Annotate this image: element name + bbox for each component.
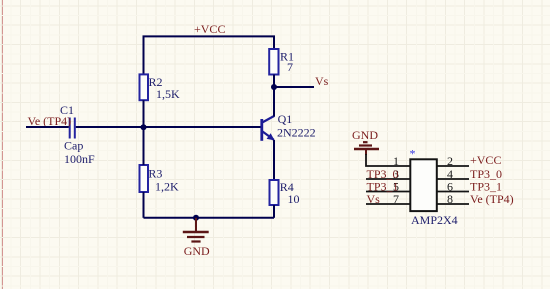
node base junction <box>141 124 147 130</box>
pin 7 wire <box>366 203 410 205</box>
svg-text:10: 10 <box>288 192 300 206</box>
transistor Q1 <box>262 112 316 141</box>
svg-text:1: 1 <box>393 154 399 168</box>
wire +VCC top rail <box>144 36 275 74</box>
svg-text:2: 2 <box>447 154 453 168</box>
svg-text:AMP2X4: AMP2X4 <box>411 213 458 227</box>
svg-text:8: 8 <box>447 192 453 206</box>
wire R3 bottom <box>143 192 145 218</box>
svg-text:Cap: Cap <box>64 139 83 153</box>
node collector junction <box>271 84 277 90</box>
svg-text:Vs: Vs <box>315 74 329 88</box>
pin 8 wire <box>437 203 469 205</box>
resistor R4 <box>270 180 300 206</box>
svg-text:7: 7 <box>393 192 399 206</box>
svg-text:R3: R3 <box>148 167 162 181</box>
wire input left <box>26 126 69 128</box>
wire GND to pin 1 <box>366 154 410 166</box>
svg-text:2N2222: 2N2222 <box>277 126 316 140</box>
svg-text:Ve (TP4): Ve (TP4) <box>28 114 72 128</box>
resistor R2 <box>140 74 181 101</box>
capacitor C1 <box>60 103 95 166</box>
pin 4 wire <box>437 178 469 180</box>
wire R2 bottom <box>143 100 145 127</box>
pin 6 wire <box>437 191 469 193</box>
sheet border line <box>1 0 3 289</box>
svg-text:GND: GND <box>352 128 378 142</box>
svg-text:Ve (TP4): Ve (TP4) <box>470 192 514 206</box>
resistor R1 <box>269 49 294 75</box>
connector U AMP2X4 body <box>410 159 437 211</box>
wire R3 top <box>143 127 145 165</box>
svg-text:Q1: Q1 <box>278 112 293 126</box>
resistor R3 <box>140 165 180 194</box>
pin 3 wire <box>366 178 410 180</box>
wire input to base <box>76 126 261 128</box>
wire bottom rail <box>144 217 275 219</box>
wire emitter <box>273 140 275 180</box>
svg-text:+VCC: +VCC <box>470 153 501 167</box>
pin 2 wire <box>437 165 469 167</box>
pin 5 wire <box>366 191 410 193</box>
svg-text:100nF: 100nF <box>64 152 95 166</box>
svg-text:1,2K: 1,2K <box>155 180 179 194</box>
svg-text:Vs: Vs <box>367 192 381 206</box>
svg-text:*: * <box>410 147 416 161</box>
node ground junction <box>193 215 199 221</box>
svg-text:GND: GND <box>184 244 210 258</box>
svg-text:1,5K: 1,5K <box>156 87 180 101</box>
wire Vs stub <box>274 86 314 88</box>
wire collector <box>273 87 275 117</box>
svg-text:7: 7 <box>287 60 293 74</box>
svg-text:+VCC: +VCC <box>194 22 225 36</box>
ground GND bottom <box>183 218 210 258</box>
wire R1 to node Vs <box>273 75 275 88</box>
wire R4 bottom <box>273 205 275 218</box>
ground GND right <box>352 128 379 155</box>
